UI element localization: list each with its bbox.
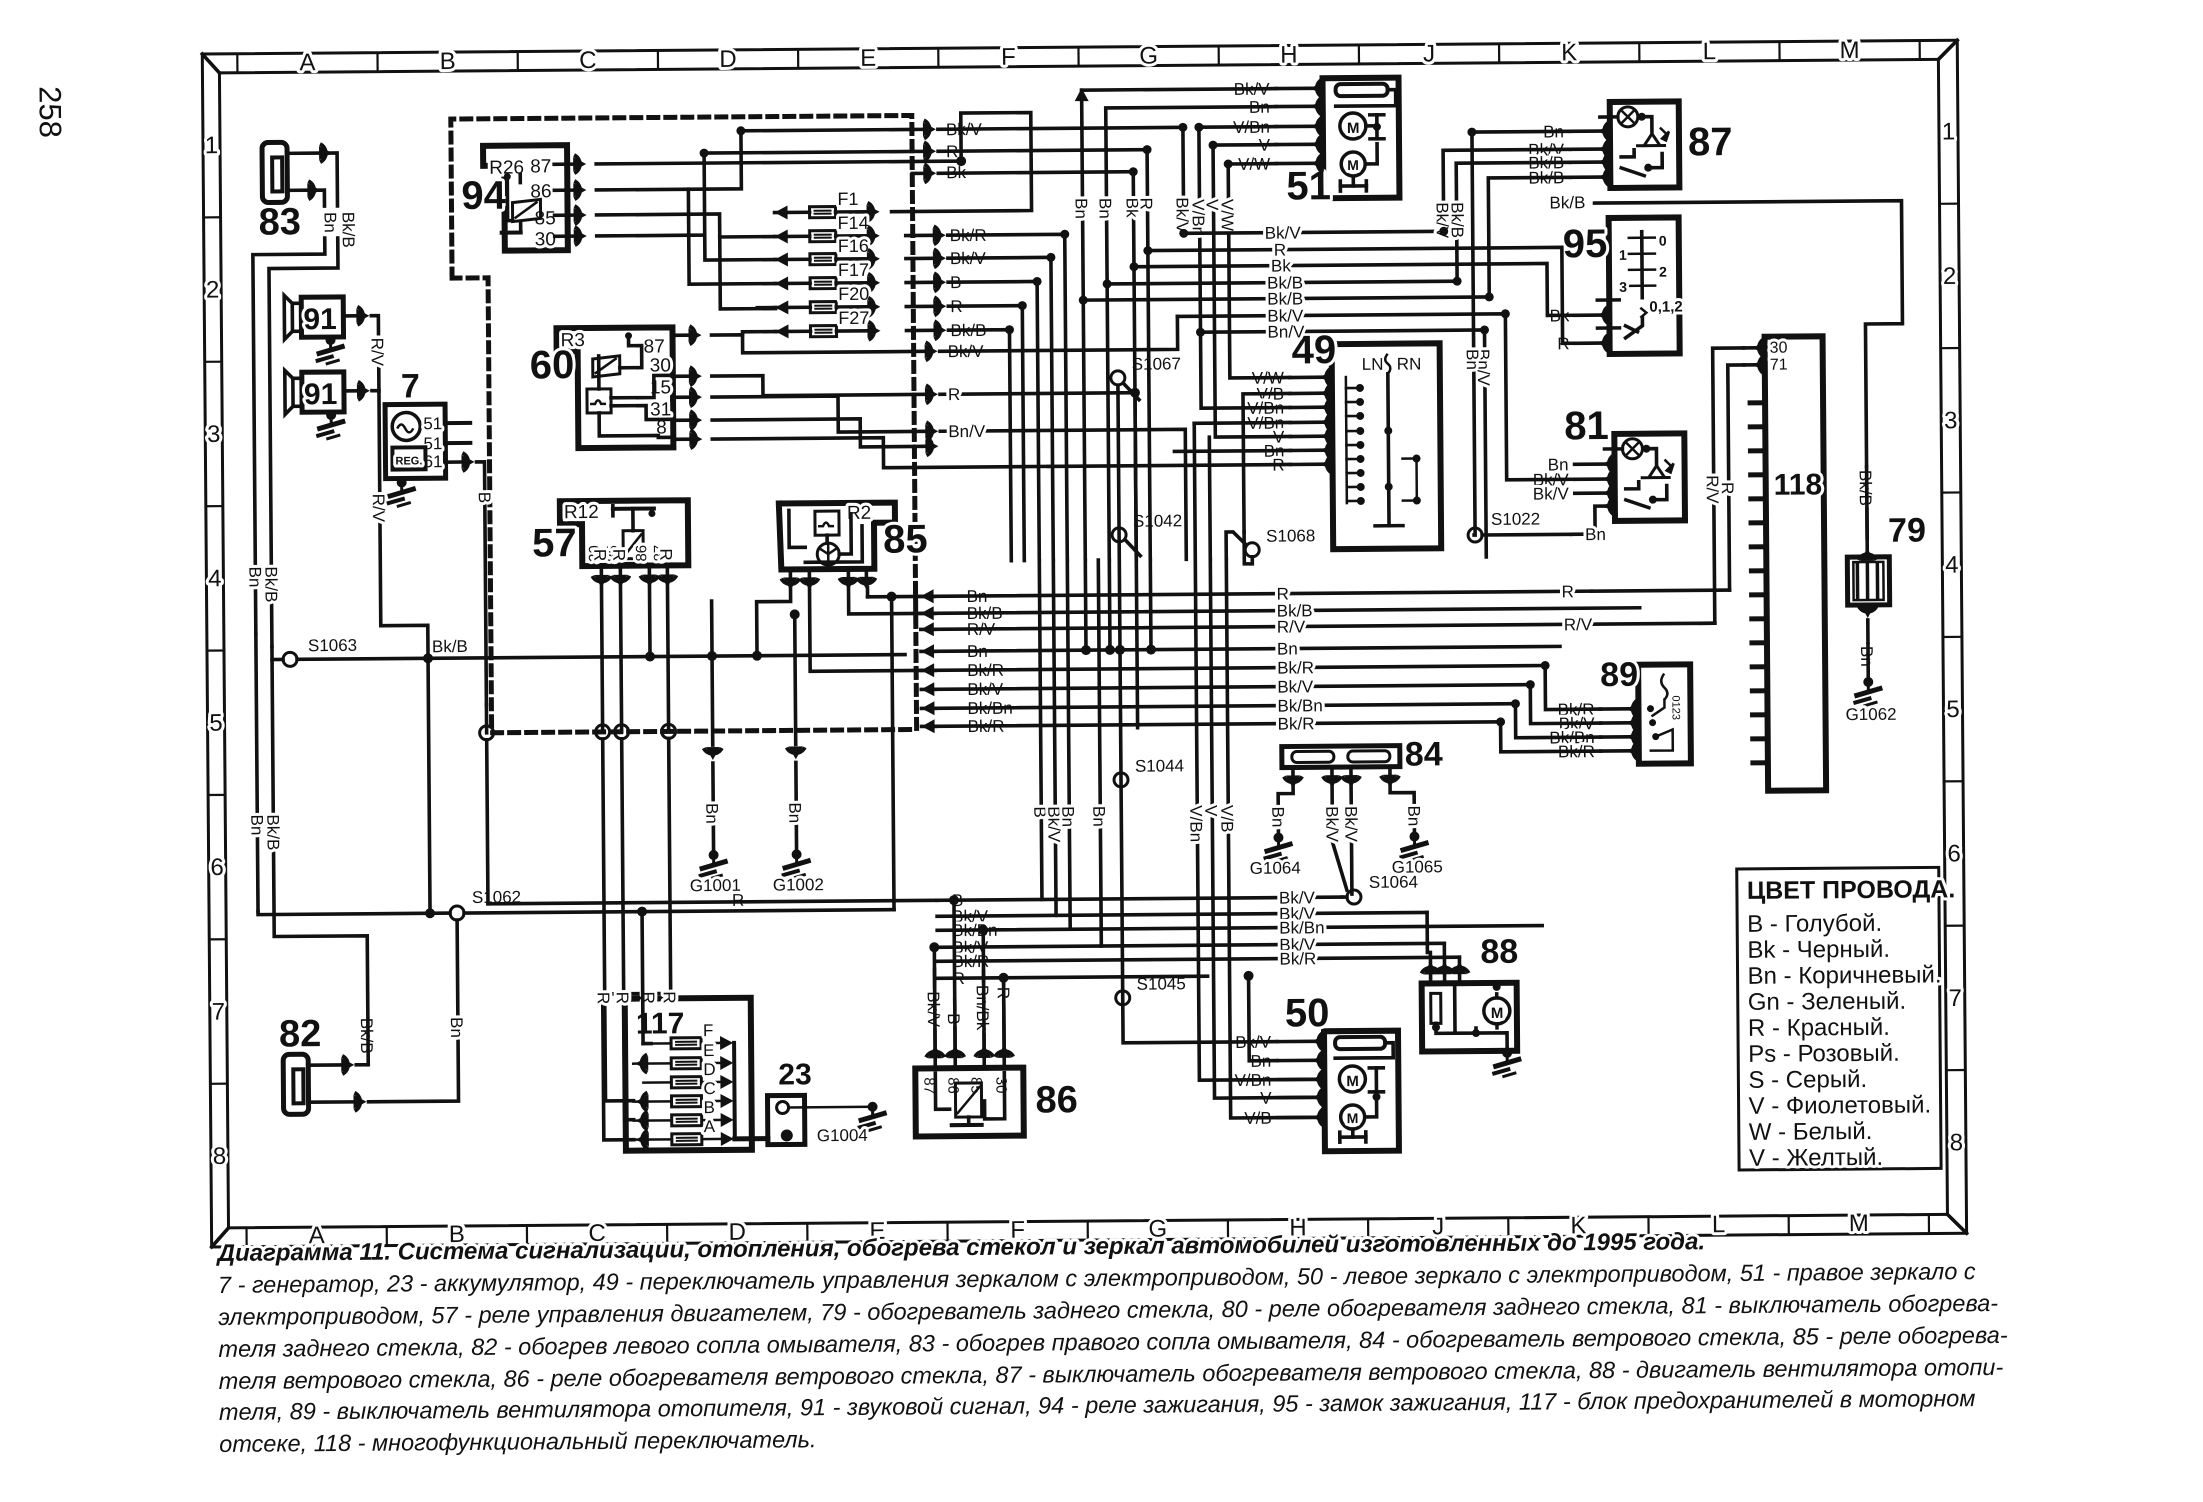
- 51 heater element: [1336, 84, 1388, 96]
- coordinate strip ticks and labels: [202, 40, 1966, 1247]
- wire Bk/R row960 to 88: [1458, 957, 1462, 963]
- svg-text:S1044: S1044: [1135, 756, 1184, 775]
- 49 ground inside: [1375, 524, 1403, 528]
- svg-text:Bn: Bn: [1268, 807, 1287, 828]
- relay 94 R26 ignition relay: [483, 145, 568, 251]
- svg-text:ЦВЕТ ПРОВОДА.: ЦВЕТ ПРОВОДА.: [1747, 875, 1956, 905]
- ground G1004: [858, 1107, 887, 1131]
- svg-text:S1064: S1064: [1369, 873, 1418, 892]
- generator pin 61 w arrow: [446, 460, 461, 464]
- 89 rotary contacts: [1661, 674, 1667, 700]
- wire R triple verticals to 117: [603, 739, 634, 1101]
- svg-text:M: M: [1347, 157, 1359, 173]
- svg-text:30: 30: [1770, 340, 1788, 357]
- svg-text:M: M: [1347, 1110, 1359, 1126]
- svg-text:отсеке, 118 - многофункциональ: отсеке, 118 - многофункциональный перекл…: [219, 1426, 816, 1457]
- svg-text:81: 81: [1564, 404, 1609, 448]
- wire 94 pin87 to F1: [596, 113, 1032, 214]
- wire V/Bn v1196: [1194, 421, 1290, 425]
- ground under horn 91 upper: [326, 335, 336, 345]
- svg-text:Bn: Bn: [1095, 198, 1114, 219]
- wire R row305: [934, 297, 940, 315]
- generator pin 51a: [445, 421, 470, 425]
- wire 87 Bk/V feed v1447: [1443, 149, 1571, 231]
- 49 pin V/Bn: [1326, 398, 1332, 416]
- svg-text:Bn: Bn: [321, 212, 340, 233]
- wire 94 pin30: [596, 151, 913, 235]
- 50 pin Bn: [1319, 1051, 1325, 1069]
- svg-text:R/V: R/V: [368, 338, 387, 367]
- node S1063: [283, 652, 297, 666]
- svg-text:Ps - Розовый.: Ps - Розовый.: [1748, 1040, 1900, 1068]
- svg-text:1: 1: [1942, 118, 1956, 145]
- wire R to 118 pin71: [1728, 365, 1746, 590]
- svg-text:Bn: Bn: [1404, 805, 1423, 826]
- svg-text:Bk/B: Bk/B: [263, 814, 282, 850]
- switch 87 heated windscreen: [1610, 101, 1680, 188]
- generator 7: [385, 404, 446, 478]
- svg-text:Bn: Bn: [1585, 525, 1606, 544]
- mirror control switch 49: [1332, 343, 1442, 549]
- relay 60 pin 30: [673, 374, 688, 378]
- svg-text:Bk/B: Bk/B: [1447, 202, 1466, 238]
- wire Bk/B row612: [921, 606, 934, 620]
- 51 bottom T: [1352, 178, 1356, 186]
- svg-text:87: 87: [644, 336, 665, 357]
- wire R v1151 down: [1148, 560, 1152, 650]
- svg-text:V - Фиолетовый.: V - Фиолетовый.: [1748, 1091, 1931, 1119]
- 84 pins below: [1291, 767, 1295, 774]
- svg-text:Bk/B: Bk/B: [339, 212, 358, 248]
- svg-text:7: 7: [401, 367, 420, 405]
- component 82 washer jet heater left: [283, 1054, 308, 1114]
- svg-text:84: 84: [1405, 735, 1443, 773]
- wire Bn v1086 with up arrow: [1075, 88, 1089, 101]
- svg-text:V - Желтый.: V - Желтый.: [1749, 1144, 1883, 1172]
- wire Bk/V row234: [1184, 231, 1444, 233]
- svg-text:Bk - Черный.: Bk - Черный.: [1747, 936, 1890, 964]
- 95 pins left: [1597, 298, 1619, 302]
- relay 60 pin 87: [673, 333, 688, 337]
- wire Bk/R row669: [921, 663, 934, 677]
- 87 pin Bk/B: [1604, 153, 1610, 171]
- 51 motor upper: [1340, 113, 1366, 139]
- svg-text:E: E: [703, 1041, 714, 1060]
- svg-text:2: 2: [206, 277, 220, 304]
- fuse F17: [810, 278, 836, 289]
- relay 60 pin 31: [673, 418, 688, 422]
- svg-text:94: 94: [461, 174, 507, 218]
- wire Bn v1086 to G1001 drop: [1083, 560, 1087, 650]
- 118 pin arrows top: [1759, 339, 1765, 357]
- wire Bk/V row688: [921, 682, 934, 696]
- wire Bn v1476 from 87: [1471, 131, 1573, 535]
- border frame: [202, 40, 1966, 1247]
- svg-text:79: 79: [1888, 512, 1926, 550]
- fuse B in 117: [672, 1115, 702, 1126]
- 49 internal contacts: [1356, 384, 1364, 392]
- 51 pin V: [1317, 135, 1323, 153]
- relay 85 timer box: [815, 511, 839, 535]
- svg-text:B: B: [704, 1098, 715, 1117]
- svg-text:S1022: S1022: [1491, 510, 1540, 529]
- svg-text:R - Красный.: R - Красный.: [1748, 1014, 1890, 1042]
- wire fuse F17 left: [688, 189, 775, 285]
- svg-text:Gn - Зеленый.: Gn - Зеленый.: [1748, 988, 1907, 1016]
- wire battery to ground G1004: [789, 1106, 873, 1109]
- node S1042: [1112, 528, 1126, 542]
- wire 85 pin85 drop: [810, 587, 936, 671]
- relay 94 coil: [512, 199, 540, 221]
- svg-text:8: 8: [213, 1143, 227, 1170]
- 81 pin 4 Bn loop: [1609, 497, 1615, 515]
- wire Bn v1068 down: [1067, 560, 1070, 929]
- svg-text:R: R: [609, 549, 628, 561]
- svg-text:Bn/V: Bn/V: [948, 422, 986, 441]
- svg-text:Bk/Bn: Bk/Bn: [1277, 696, 1323, 715]
- 89 pin Bk/Bn: [1633, 728, 1639, 746]
- 50 motor upper: [1339, 1066, 1365, 1092]
- 87 switch contact: [1621, 168, 1644, 176]
- wire V/B from 49 to v1227: [1243, 393, 1291, 531]
- horn 91 upper: [301, 297, 343, 337]
- wire Bk/B row300: [1083, 297, 1489, 300]
- svg-text:D: D: [703, 1060, 715, 1079]
- svg-text:Bk/B: Bk/B: [1549, 193, 1585, 212]
- 95 switch contact: [1625, 318, 1642, 338]
- 50 pin V: [1319, 1088, 1325, 1106]
- svg-text:R: R: [1561, 582, 1573, 601]
- wire Bn from 83 down-left: [253, 238, 328, 634]
- svg-text:S1042: S1042: [1133, 511, 1182, 530]
- svg-text:88: 88: [1480, 933, 1518, 971]
- wire Bk/B into 82: [356, 1063, 368, 1067]
- 49 pin V/W: [1326, 368, 1332, 386]
- wire Bn v1110 down: [1107, 560, 1111, 650]
- wire 94 pin86: [596, 129, 912, 189]
- svg-text:83: 83: [258, 201, 301, 243]
- 88 pins top: [1429, 975, 1433, 983]
- svg-text:C: C: [703, 1079, 715, 1098]
- svg-text:50: 50: [1285, 991, 1330, 1035]
- ignition lock 95: [1609, 217, 1680, 354]
- wire Bn/V row333: [1201, 330, 1487, 559]
- svg-text:51: 51: [423, 414, 442, 433]
- 87 lamp: [1618, 107, 1638, 127]
- svg-text:3: 3: [1619, 279, 1627, 295]
- relay 60 pin 15: [673, 395, 688, 399]
- wire Bk/V row688 bend to 89: [1530, 684, 1600, 724]
- 79 feed wire Bk/B: [1858, 554, 1876, 560]
- node S1022: [1468, 528, 1482, 542]
- junction dots: [1178, 123, 1187, 132]
- svg-text:4: 4: [208, 565, 222, 592]
- svg-text:258: 258: [33, 86, 68, 138]
- svg-text:Bk/R: Bk/R: [1278, 714, 1315, 733]
- svg-text:R: R: [656, 548, 675, 560]
- svg-text:D: D: [719, 46, 737, 73]
- svg-text:2: 2: [1659, 264, 1667, 280]
- 49 pin R: [1327, 455, 1333, 473]
- wire Bk/V v1054 down: [1053, 560, 1056, 915]
- wire Bk/V v1187: [1181, 127, 1185, 233]
- 51 pin V/W: [1317, 154, 1323, 172]
- svg-text:87: 87: [530, 156, 551, 177]
- 87 pin Bk/V: [1604, 140, 1610, 158]
- left mirror 50: [1324, 1031, 1399, 1152]
- 51 pin Bk/V: [1317, 79, 1323, 97]
- relay 94 pin 87: [554, 162, 572, 166]
- svg-text:RN: RN: [1397, 354, 1422, 373]
- svg-text:L: L: [1703, 38, 1717, 65]
- fuse F16: [810, 254, 836, 265]
- svg-text:91: 91: [303, 303, 337, 336]
- relay 94 pin 86: [554, 188, 572, 192]
- wire R/V row628: [921, 622, 934, 636]
- svg-text:91: 91: [304, 378, 338, 411]
- wire 60 pin30 exits: [712, 374, 914, 396]
- caption text: [216, 1226, 2009, 1457]
- fuse E in 117: [671, 1058, 701, 1069]
- svg-text:5: 5: [1946, 696, 1960, 723]
- wire Bk/B from S1063 to right: [272, 658, 283, 662]
- wire 57 pin30 drop: [601, 586, 602, 732]
- svg-text:6: 6: [210, 854, 224, 881]
- relay 60 pin 8: [673, 437, 688, 441]
- 84 wires Bk/V to S1064: [1332, 786, 1347, 890]
- multifunction switch 118: [1765, 336, 1827, 790]
- svg-text:F1: F1: [837, 189, 858, 209]
- wire Bn far-left vertical: [256, 634, 258, 912]
- svg-text:0,1,2: 0,1,2: [1649, 298, 1683, 315]
- relay 86 coil: [955, 1083, 981, 1117]
- svg-text:Bn: Bn: [785, 802, 804, 823]
- switch 81 heated rear window: [1614, 433, 1685, 521]
- ground under horn 91 lower: [326, 410, 336, 420]
- wire Bk/B row329: [934, 321, 940, 339]
- wire B row281: [934, 273, 940, 291]
- wire Bk/Bn row707: [921, 701, 934, 715]
- node S1067: [1111, 371, 1125, 385]
- relay 86 windshield heater relay: [915, 1068, 1024, 1137]
- fuse F1: [810, 207, 836, 218]
- wire 94 pin85: [597, 214, 776, 310]
- wire Bk/V row317 to 81: [1177, 313, 1574, 482]
- svg-text:R: R: [1136, 198, 1155, 210]
- svg-text:G1062: G1062: [1845, 705, 1896, 724]
- svg-text:A: A: [299, 49, 315, 76]
- svg-text:R/V: R/V: [1277, 617, 1306, 636]
- rear window heater 79: [1847, 557, 1889, 605]
- wire Bn v1110 from 51: [1106, 107, 1280, 560]
- 88 motor: [1484, 998, 1510, 1024]
- svg-text:F17: F17: [838, 260, 869, 280]
- svg-text:Bk/R: Bk/R: [1277, 658, 1314, 677]
- wire R v1151: [1147, 150, 1150, 560]
- svg-text:30: 30: [535, 229, 556, 250]
- svg-text:LN: LN: [1362, 355, 1384, 374]
- 51 joint symbol right: [1375, 115, 1379, 139]
- svg-text:B - Голубой.: B - Голубой.: [1747, 910, 1882, 938]
- ground under generator 7: [397, 477, 407, 487]
- wire 117 to 23: [735, 1136, 768, 1141]
- legend box ЦВЕТ ПРОВОДА: [1737, 867, 1941, 1170]
- svg-text:F: F: [703, 1021, 714, 1040]
- svg-text:B: B: [440, 48, 456, 75]
- wire Bk v1137: [1133, 172, 1136, 560]
- 50 motor lower: [1341, 1105, 1365, 1129]
- wire B v1040 down: [1039, 560, 1042, 899]
- svg-text:86: 86: [633, 545, 650, 562]
- wire B from generator joins dashes bottom: [485, 705, 489, 733]
- 87 pin Bn: [1604, 122, 1610, 140]
- relay 86 pins top: [933, 1059, 937, 1068]
- relay 60 timer: [587, 389, 611, 413]
- 51 pin Bn: [1317, 97, 1323, 115]
- svg-text:F16: F16: [838, 236, 869, 256]
- wire B row899 to S1064: [1342, 895, 1347, 899]
- 50 bottom T: [1351, 1129, 1355, 1137]
- svg-text:87: 87: [1688, 120, 1733, 164]
- junction dots on taps: [929, 942, 939, 952]
- wire 83 pin bottom: [287, 188, 306, 192]
- svg-text:Bn: Bn: [1463, 349, 1482, 370]
- svg-text:B: B: [475, 492, 494, 503]
- relay 85 R2: [779, 503, 896, 570]
- dashed engine compartment boundary: [451, 115, 917, 733]
- svg-text:R: R: [594, 992, 613, 1004]
- relay 57 coil: [623, 531, 643, 559]
- wire 60 pin15: [712, 395, 914, 433]
- svg-text:71: 71: [1770, 357, 1788, 374]
- svg-text:Bk/R: Bk/R: [1279, 949, 1316, 968]
- wire 87 Bk/B feed v1492: [1488, 177, 1571, 297]
- svg-text:Bk/V: Bk/V: [1277, 677, 1314, 696]
- svg-text:23: 23: [778, 1058, 812, 1091]
- 88 resistor: [1431, 993, 1441, 1023]
- wire 85 pin87 drop: [866, 588, 870, 597]
- node S1068: [1245, 543, 1259, 557]
- wire Bn into S1062 from left: [258, 910, 450, 915]
- svg-text:R: R: [660, 991, 679, 1003]
- svg-text:2: 2: [1943, 263, 1957, 290]
- 95 position diagram: [1640, 232, 1644, 298]
- svg-text:Bn: Bn: [447, 1017, 466, 1038]
- wire V v1211 top segment: [1208, 437, 1213, 559]
- wire R fourth vertical from row595: [892, 597, 894, 910]
- 89 pin Bk/R: [1633, 700, 1639, 718]
- svg-text:REG.: REG.: [395, 455, 422, 467]
- wire Bn row650: [921, 644, 934, 658]
- 81 switch contact: [1626, 500, 1649, 508]
- boundary pin arrows on dashed edge (top group): [924, 120, 930, 138]
- svg-text:Bn: Bn: [1058, 806, 1077, 827]
- svg-text:W - Белый.: W - Белый.: [1749, 1118, 1873, 1146]
- svg-text:F14: F14: [838, 213, 869, 233]
- 79 ground wire Bn: [1859, 606, 1877, 612]
- wire V/Bn v1203 from 51: [1199, 127, 1290, 409]
- wire Bn row595: [921, 589, 934, 603]
- svg-text:R/V: R/V: [369, 494, 388, 523]
- svg-text:R: R: [948, 385, 960, 404]
- svg-text:F20: F20: [838, 284, 869, 304]
- svg-text:95: 95: [1563, 222, 1608, 266]
- wire R row393: [926, 385, 932, 403]
- 118 pin ticks: [1750, 400, 1765, 405]
- svg-text:8: 8: [1950, 1129, 1964, 1156]
- svg-text:S1068: S1068: [1266, 526, 1315, 545]
- svg-text:Bk/V: Bk/V: [1322, 806, 1341, 843]
- wire Bk/B row284: [1107, 281, 1457, 284]
- svg-text:Bk/B: Bk/B: [261, 566, 280, 602]
- svg-text:82: 82: [279, 1013, 322, 1055]
- 49 pin V/Bn: [1327, 413, 1333, 431]
- 51 motor lower: [1341, 152, 1365, 176]
- svg-text:57: 57: [532, 521, 577, 565]
- 50 pin V/Bn: [1319, 1070, 1325, 1088]
- component 83 washer jet heater right: [262, 142, 287, 202]
- 87 LED w arrows: [1636, 134, 1666, 146]
- wire fuse F14 left: [720, 235, 775, 239]
- wire Bk/V row946 to 88: [1443, 943, 1447, 963]
- wire V/W v1232 from 51: [1228, 164, 1290, 378]
- svg-text:1: 1: [205, 132, 219, 159]
- svg-text:5: 5: [209, 710, 223, 737]
- relay 94 pin 85: [555, 213, 573, 217]
- wire 57 pin86 drop: [648, 586, 652, 657]
- ground under 88: [1502, 1048, 1512, 1058]
- svg-text:K: K: [1561, 39, 1577, 66]
- fuse F20: [810, 302, 836, 313]
- svg-text:R: R: [590, 549, 609, 561]
- 49 pin Bn: [1327, 441, 1333, 459]
- wire Bn of 50 up to R row: [1249, 976, 1278, 1061]
- wire Bn v1099 down: [1098, 560, 1101, 946]
- svg-text:Bn: Bn: [1277, 639, 1298, 658]
- svg-text:G1064: G1064: [1250, 858, 1301, 877]
- svg-text:86: 86: [1035, 1079, 1078, 1121]
- svg-text:A: A: [704, 1117, 716, 1136]
- svg-text:J: J: [1423, 40, 1435, 67]
- 49 pin V/B: [1326, 384, 1332, 402]
- fuse F in 117: [671, 1038, 701, 1049]
- svg-text:R/V: R/V: [1564, 615, 1593, 634]
- S1068 drop: [1226, 532, 1246, 559]
- svg-text:6: 6: [1947, 840, 1961, 867]
- fuse D in 117: [671, 1077, 701, 1088]
- wire 60 pin31: [712, 418, 914, 448]
- svg-text:1: 1: [1619, 247, 1627, 263]
- svg-text:R12: R12: [564, 502, 599, 523]
- wire Bk/V row257: [934, 249, 940, 267]
- wire 85 pin86 drop: [757, 588, 792, 655]
- svg-text:4: 4: [1945, 552, 1959, 579]
- svg-text:0: 0: [1659, 233, 1667, 249]
- wire V v1217 from 51: [1213, 145, 1290, 438]
- svg-text:3: 3: [1944, 407, 1958, 434]
- svg-text:Bk/B: Bk/B: [432, 637, 468, 656]
- wire 57 pin85 drop: [620, 586, 621, 732]
- 50 pin Bk/V: [1318, 1032, 1324, 1050]
- svg-text:Bn/V: Bn/V: [1267, 322, 1305, 341]
- 87 pin Bk/B: [1605, 168, 1611, 186]
- wire 60 pin87 exits: [712, 333, 914, 353]
- wire fuse F16 left: [705, 235, 775, 261]
- 81 lamp: [1622, 439, 1642, 459]
- svg-text:60: 60: [530, 343, 575, 387]
- svg-text:7: 7: [212, 998, 226, 1025]
- svg-text:0123: 0123: [1669, 695, 1681, 720]
